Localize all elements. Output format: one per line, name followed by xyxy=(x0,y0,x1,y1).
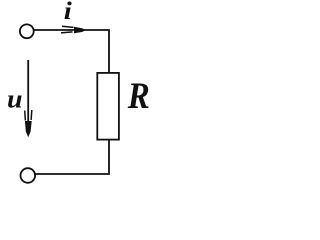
svg-text:u: u xyxy=(7,83,23,113)
svg-text:R: R xyxy=(127,76,150,117)
svg-text:i: i xyxy=(64,0,72,25)
